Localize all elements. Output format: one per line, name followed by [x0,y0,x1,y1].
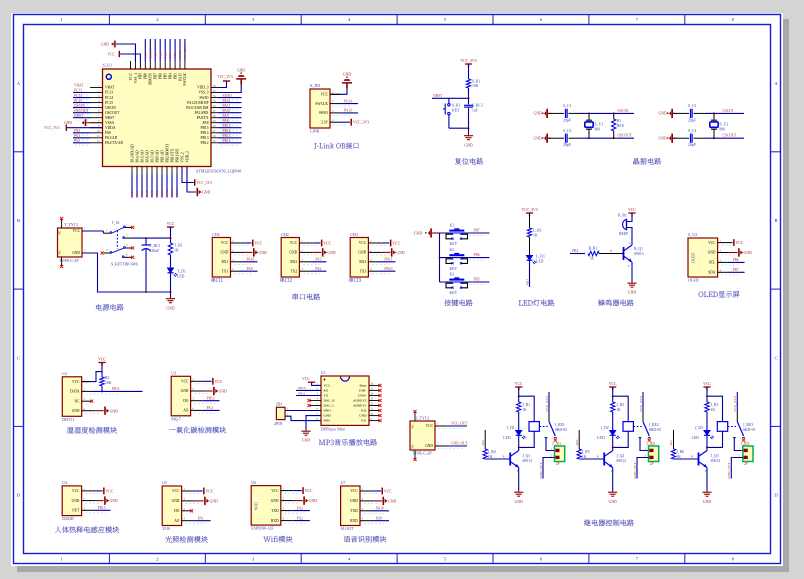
connector CH3 [350,232,368,277]
wire GND_OUT [435,445,446,447]
svg-text:U1: U1 [321,370,326,375]
svg-text:OSCOUT: OSCOUT [105,111,120,115]
svg-text:DHT11: DHT11 [62,417,74,422]
svg-text:20pF: 20pF [563,118,571,122]
svg-text:J_JD1: J_JD1 [552,442,561,446]
svg-text:PA7: PA7 [150,190,154,196]
wire [468,88,470,98]
svg-text:20pF: 20pF [688,118,696,122]
svg-text:VCC: VCC [129,72,133,80]
relay switch J_RE1 [539,426,547,428]
svg-text:VCC: VCC [290,241,298,245]
TYPE-C bottom stub no-connect [61,257,63,267]
wire PB3 [529,261,531,288]
svg-text:IO1: IO1 [361,419,367,423]
IC U5 5516 [162,480,181,531]
svg-text:U2: U2 [62,371,67,376]
transistor J_Q1 S9013 [510,451,519,468]
power VCC relay 3 [703,387,710,391]
svg-text:PA14: PA14 [344,99,352,103]
svg-text:PA9: PA9 [247,267,253,271]
svg-text:VCC: VCC [321,93,329,97]
svg-text:PA13: PA13 [344,109,352,113]
svg-text:KEY: KEY [450,242,458,246]
svg-text:B_B1: B_B1 [618,214,627,218]
svg-text:PA4: PA4 [135,190,139,196]
svg-text:PB1: PB1 [160,190,164,196]
CH2 RX wire PA3 [299,261,309,263]
svg-text:GND_OUT: GND_OUT [539,462,543,479]
wire [706,412,708,430]
U6 pin3 wire PA3 [281,510,293,512]
svg-text:B_Q1: B_Q1 [634,247,643,251]
wire [518,387,520,402]
svg-text:LED: LED [536,260,544,264]
title fuwei dianlu [455,158,483,165]
svg-text:K2: K2 [450,248,455,252]
wire to base [674,458,699,460]
label chuankou 1 [211,278,222,282]
svg-text:PA9/TX: PA9/TX [197,116,209,120]
title guangzhao [165,536,208,543]
svg-text:VCC: VCC [359,241,367,245]
U5 pin3 no connect [182,510,191,512]
ground at VSS_3 [219,85,242,93]
wire VCC_OUT [435,425,446,427]
wire to base [485,458,510,460]
title jingzhen dianlu [633,158,661,165]
svg-text:ADKEY2: ADKEY2 [353,399,367,403]
svg-text:PC15: PC15 [74,99,82,103]
svg-text:DFPlayer Mini: DFPlayer Mini [321,427,346,432]
svg-text:GND: GND [388,500,396,504]
U7 pin2 GND wire [360,500,373,502]
svg-text:J_TYC1: J_TYC1 [416,415,430,420]
title wifi [263,536,292,543]
svg-text:C: C [17,355,20,360]
svg-text:JD1: JD1 [276,402,282,407]
svg-text:U5: U5 [162,480,167,485]
buzzer B_B1 BEEP [623,219,627,229]
svg-text:T_D1: T_D1 [177,270,186,274]
svg-text:AO: AO [183,409,189,413]
svg-text:VCC_OUT: VCC_OUT [451,421,468,425]
svg-text:GND: GND [221,251,229,255]
title dianyuan dianlu [96,304,124,311]
svg-text:GND: GND [464,144,472,148]
wire [529,213,531,228]
mp3 DAC_R no connect [310,400,321,402]
svg-text:J_RE2: J_RE2 [649,423,659,427]
svg-text:PB14: PB14 [201,131,209,135]
svg-text:VCC: VCC [181,380,189,384]
svg-text:PB1/AD: PB1/AD [160,150,164,163]
wire [627,228,632,241]
wire [612,387,614,402]
svg-text:C: C [774,355,777,360]
relay coil J_RE1 [519,396,535,421]
typec bottom stub [414,450,416,460]
svg-text:B: B [691,456,693,459]
label chuankou 3 [349,278,361,282]
wire [627,213,632,222]
wire [170,227,172,243]
svg-text:PB15: PB15 [223,124,231,128]
svg-text:VCC_3V3: VCC_3V3 [460,59,476,63]
OLED GND wire [718,252,729,254]
svg-text:2P: 2P [556,462,560,466]
svg-text:1K: 1K [522,408,527,412]
svg-text:GND: GND [708,251,716,255]
connector J_TYC1 TYPE-C-2P out [410,415,435,455]
svg-text:S_U2: S_U2 [688,232,697,237]
resistor J_R5 1K base [578,430,580,449]
svg-text:PB15: PB15 [201,126,209,130]
svg-text:PA5: PA5 [481,439,485,445]
svg-text:VCC_3V3: VCC_3V3 [521,208,537,212]
U4 pin3 wire PB15 [82,509,94,511]
svg-text:PA0: PA0 [74,129,80,133]
wire [529,237,531,255]
capacitor S_C3 20pF [549,137,565,139]
CH1 RX wire PA10 [231,261,241,263]
U6 pin4 wire PA2 [281,520,293,522]
svg-text:GND: GND [659,137,667,141]
wire VCC to switch [82,230,103,232]
svg-text:S9013: S9013 [634,252,644,256]
svg-text:PC14: PC14 [105,96,113,100]
svg-text:PB10: PB10 [298,386,306,390]
OLED SDA wire PB7 [718,271,728,273]
IC U7 SU-03T [341,480,360,531]
svg-text:GND: GND [219,390,227,394]
svg-text:SDA: SDA [708,271,716,275]
MCU pin numbers [97,85,216,143]
svg-text:VCC_3V3: VCC_3V3 [353,121,369,125]
relay coil J_RE3 [707,396,723,421]
mp3 DAC_L no connect [310,405,321,407]
svg-text:T_RC1: T_RC1 [150,244,161,248]
svg-text:PB7: PB7 [154,73,158,79]
svg-text:GND: GND [64,121,72,125]
svg-text:PA6/AD: PA6/AD [145,150,149,163]
IC U6 ESP8266-12F [251,480,281,531]
resistor L_R1 1K [527,228,531,237]
svg-text:AO: AO [174,519,180,523]
svg-text:J_R6: J_R6 [676,450,684,454]
svg-text:PA11/USB DM: PA11/USB DM [186,106,209,110]
svg-text:DAC_R: DAC_R [324,399,336,403]
svg-text:IO2: IO2 [361,409,367,413]
connector CH2 [281,232,299,277]
svg-text:B: B [610,250,612,253]
svg-text:PA10/RX: PA10/RX [195,111,209,115]
svg-text:T_R1: T_R1 [174,243,183,247]
svg-text:B: B [774,218,777,223]
svg-text:PC13: PC13 [74,89,82,93]
svg-text:C: C [517,451,519,454]
svg-text:PA3: PA3 [297,506,303,510]
connector J_JD1 2P [546,438,555,451]
svg-text:PB13: PB13 [201,136,209,140]
svg-text:VCC: VCC [206,490,214,494]
svg-text:1K: 1K [676,455,681,459]
svg-text:3.3V: 3.3V [321,120,328,124]
svg-text:VDD_3: VDD_3 [197,86,209,90]
J-Link pin 2 wire PA14 [330,103,340,105]
svg-text:VCC: VCC [302,377,310,381]
svg-text:GND: GND [327,251,335,255]
svg-text:1K: 1K [590,257,595,261]
svg-text:B: B [597,456,599,459]
connector J_JD2 2P [640,438,649,451]
svg-text:S_C2: S_C2 [688,104,697,108]
mp3 SPK+ wire [285,410,321,412]
svg-text:NRST: NRST [105,116,115,120]
title fengmingqi dianlu [598,299,634,306]
svg-text:NC: NC [411,424,415,428]
svg-text:GND: GND [628,291,636,295]
svg-text:VSS_1: VSS_1 [134,73,138,83]
capacitor S_C1 20pF [549,112,565,114]
svg-text:20pF: 20pF [563,143,571,147]
svg-text:PB4: PB4 [168,73,172,79]
LED T_D1 [168,268,178,277]
wire [468,64,470,79]
svg-text:B: B [17,218,20,223]
key bus wire [439,233,441,282]
svg-text:GND: GND [110,409,118,413]
resistor J_R4 1K base [484,430,486,449]
svg-text:J_Q2: J_Q2 [616,454,624,458]
mp3 SPK- wire [285,416,321,420]
U2 pin3 no connect [82,400,91,402]
title OLED xianshiping [699,291,740,297]
svg-text:PB12: PB12 [201,141,209,145]
relay coil J_RE2 [613,396,629,421]
svg-text:OSCIN: OSCIN [74,104,85,108]
svg-text:NRST: NRST [433,94,443,98]
svg-text:PA9: PA9 [376,517,382,521]
svg-text:TX: TX [324,394,329,398]
svg-text:PB13: PB13 [223,134,231,138]
svg-text:OSCIN: OSCIN [618,109,629,113]
svg-text:K3: K3 [450,273,455,277]
U5 pin2 GND wire [182,500,195,502]
svg-text:PB4: PB4 [572,249,578,253]
svg-text:J_Q1: J_Q1 [522,454,530,458]
svg-text:J_R2: J_R2 [616,403,624,407]
wire to base [579,458,604,460]
title rentirenshi [55,526,119,533]
svg-text:GND: GND [101,42,109,46]
mp3 right no-connect stubs [369,385,379,420]
wire [170,255,172,268]
svg-text:VCC: VCC [384,490,392,494]
CH3 TX wire PB10 [368,270,378,272]
wire [694,112,706,114]
svg-text:PB15: PB15 [98,506,106,510]
wire [518,412,520,430]
svg-text:GND: GND [359,414,367,418]
svg-text:GND: GND [259,251,267,255]
label chuankou 2 [280,278,292,282]
svg-text:SRD-05: SRD-05 [743,428,756,432]
svg-text:PB5: PB5 [474,278,480,282]
svg-text:RX2: RX2 [290,260,297,264]
CH3 VCC wire [368,242,381,244]
CH2 GND wire [299,251,312,253]
svg-text:PA1: PA1 [74,134,80,138]
svg-text:RX3: RX3 [359,260,366,264]
svg-text:GND: GND [324,414,332,418]
svg-text:SWCLK: SWCLK [183,46,187,58]
power VCC dht11 [98,363,105,367]
connector CH1 [212,232,230,277]
svg-text:PB2/BOOT1: PB2/BOOT1 [165,144,169,163]
svg-text:LINK: LINK [310,129,320,134]
svg-text:PA7: PA7 [669,439,673,445]
power VCC_3V3 to VDD_3 [219,81,227,88]
svg-text:VSS_3: VSS_3 [198,91,208,95]
svg-text:USB+: USB+ [358,394,367,398]
svg-text:GND_OUT: GND_OUT [451,441,469,445]
svg-text:J_RE3: J_RE3 [743,423,753,427]
svg-text:1K: 1K [488,455,493,459]
power VCC_3V3 reset [465,64,472,68]
svg-text:PB6: PB6 [159,73,163,79]
wire [569,112,581,114]
svg-text:USB-: USB- [359,389,367,393]
power VCC buzzer [628,213,635,217]
svg-text:PB11: PB11 [175,189,179,197]
svg-text:GND: GND [534,137,542,141]
svg-text:PB10/TX: PB10/TX [170,148,174,162]
wire [612,412,614,430]
svg-text:SWIO: SWIO [319,111,329,115]
svg-text:PB14: PB14 [223,129,231,133]
svg-text:VSSA: VSSA [105,121,115,125]
svg-text:SCL: SCL [709,261,716,265]
svg-text:PA3: PA3 [130,190,134,196]
svg-text:J_R5: J_R5 [582,450,590,454]
svg-text:VCC: VCC [254,242,262,246]
svg-text:ESP8266-12F: ESP8266-12F [251,526,274,531]
svg-text:S_Y2: S_Y2 [720,122,729,126]
svg-text:PB11: PB11 [384,258,392,262]
svg-text:VCC: VCC [628,208,636,212]
svg-text:PA10: PA10 [247,258,255,262]
svg-text:DAC_L: DAC_L [324,404,335,408]
svg-text:SPK-: SPK- [324,419,331,423]
svg-text:PA9: PA9 [223,114,229,118]
svg-text:J_R1: J_R1 [522,403,530,407]
svg-text:TX2: TX2 [291,269,298,273]
svg-text:PA4: PA4 [207,406,213,410]
wire [449,127,469,129]
svg-text:VCC: VCC [350,489,358,493]
svg-text:PB3: PB3 [173,73,177,79]
svg-text:K1: K1 [450,224,455,228]
resistor S_R1 10K [466,79,470,88]
button K1 KEY [440,232,490,234]
svg-text:SRD-05: SRD-05 [649,428,662,432]
svg-text:VCC: VCC [392,242,400,246]
svg-text:J_R4: J_R4 [488,450,496,454]
transistor B_Q1 S9013 [624,245,633,262]
svg-text:1K: 1K [533,233,538,237]
svg-text:OLED: OLED [692,253,696,263]
svg-text:GND: GND [534,112,542,116]
svg-text:J_RE1: J_RE1 [555,423,565,427]
svg-text:PA15: PA15 [178,73,182,81]
svg-text:D203B: D203B [62,516,74,521]
svg-text:8M: 8M [720,127,726,131]
svg-text:PB6: PB6 [158,52,162,58]
MCU bottom pin stubs [132,167,187,175]
svg-text:PA8: PA8 [223,119,229,123]
U7 pin3 wire PA10 [360,510,372,512]
LED L_D1 [527,256,537,265]
svg-text:GND: GND [172,499,180,503]
svg-text:VCC: VCC [305,489,313,493]
svg-text:1K: 1K [616,408,621,412]
svg-text:STM32F103C8T6_LQFP48: STM32F103C8T6_LQFP48 [196,168,241,173]
svg-text:PA3/RX/AD: PA3/RX/AD [130,144,134,163]
svg-text:BOOT0: BOOT0 [148,47,152,58]
svg-text:CSCOUT: CSCOUT [723,134,738,138]
svg-text:PC13: PC13 [105,91,113,95]
svg-text:NRST: NRST [74,114,84,118]
svg-text:1uF: 1uF [472,108,478,112]
svg-text:S_Y1: S_Y1 [595,122,604,126]
svg-text:GND: GND [350,499,358,503]
svg-text:BEEP: BEEP [619,232,628,236]
svg-text:PB7: PB7 [733,268,739,272]
svg-text:GND: GND [181,389,189,393]
LED J_D3 [704,431,714,440]
svg-text:VCC: VCC [323,242,331,246]
IC U1 DFPlayer Mini [321,370,369,431]
svg-text:GND_OUT: GND_OUT [727,462,731,479]
CH1 GND wire [231,251,244,253]
relay switch J_RE2 [633,426,641,428]
svg-text:SWCLK: SWCLK [315,102,328,106]
connector JD1 2PIN [274,402,289,426]
svg-text:2PIN: 2PIN [274,421,283,426]
wire [694,137,706,139]
CH3 GND wire [368,251,381,253]
svg-text:PA4/AD: PA4/AD [135,150,139,163]
U3 pin3 wire PB12 [191,400,203,402]
svg-text:E: E [628,265,630,268]
svg-text:L_D1: L_D1 [536,255,545,259]
svg-text:OSCIN: OSCIN [105,106,116,110]
button K3 KEY [440,281,490,283]
svg-text:5516: 5516 [162,526,170,531]
wire data PB11 [101,388,103,391]
title chuankou dianlu [292,293,320,300]
svg-text:PA11: PA11 [223,104,231,108]
svg-text:VBAT: VBAT [74,84,84,88]
svg-text:PB10: PB10 [384,267,392,271]
svg-text:GND: GND [289,251,297,255]
svg-text:VCC: VCC [736,241,744,245]
svg-text:PC14: PC14 [74,94,82,98]
svg-text:S_KFT DIP-SW6: S_KFT DIP-SW6 [111,262,138,266]
IC S_U2 OLED [688,232,718,282]
svg-text:GND: GND [72,409,80,413]
